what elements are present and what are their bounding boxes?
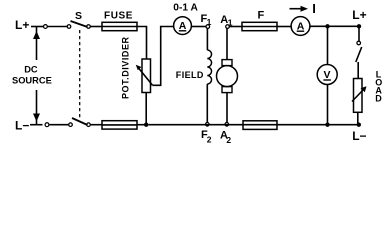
0-1 A label xyxy=(173,2,198,13)
wire load rheostat to L- corner xyxy=(357,112,359,124)
wire wiper tap to ammeter xyxy=(153,27,174,86)
svg-text:2: 2 xyxy=(207,135,212,145)
wire switch to top fuse xyxy=(90,26,102,28)
voltmeter V xyxy=(317,65,337,85)
junction L+ corner xyxy=(357,24,361,28)
node L+ right label xyxy=(352,8,366,22)
wire L+ circle to switch xyxy=(48,26,68,28)
svg-text:D: D xyxy=(375,94,382,104)
wire field coil to F2 xyxy=(206,84,208,122)
junction pot divider / bottom rail xyxy=(144,123,148,127)
F fuse label xyxy=(258,10,265,22)
wire switch to bottom fuse xyxy=(90,124,102,126)
current arrow I xyxy=(290,1,316,16)
node A2 label xyxy=(220,129,231,145)
wire A1 to armature xyxy=(226,29,228,60)
switch S top pole xyxy=(67,21,90,28)
node L+ left label xyxy=(15,18,29,32)
wire F1 to field coil xyxy=(206,29,208,51)
wire L+ corner down to load switch xyxy=(358,26,360,41)
svg-text:L+: L+ xyxy=(352,8,366,22)
svg-text:DC: DC xyxy=(24,65,38,75)
resistor pot divider body xyxy=(142,59,151,93)
ammeter 0-1A xyxy=(174,17,192,35)
wire ammeter to F1 xyxy=(191,26,206,28)
svg-text:L−: L− xyxy=(15,119,29,133)
svg-text:0-1 A: 0-1 A xyxy=(173,2,198,13)
wire L- circle to switch xyxy=(50,124,69,126)
wire ammeter I to L+ corner xyxy=(310,25,359,27)
wire pot divider bottom xyxy=(145,93,147,125)
fuse bottom (rect with line through) xyxy=(102,121,137,129)
pot divider wiper arrow xyxy=(136,65,153,86)
LOAD label xyxy=(375,70,382,104)
wire A1 to fuse F xyxy=(229,26,242,28)
switch S bottom pole xyxy=(69,118,91,126)
motor armature (brushes and body) xyxy=(217,60,238,93)
wire voltmeter top branch xyxy=(327,26,329,64)
POT.DIVIDER label (rotated) xyxy=(121,36,131,99)
node F1 terminal circle xyxy=(206,25,210,29)
wire fuse F to ammeter I xyxy=(277,26,291,28)
wire L+ top bar xyxy=(31,26,43,28)
svg-text:POT.DIVIDER: POT.DIVIDER xyxy=(121,36,131,99)
resistor load rheostat body xyxy=(354,79,363,113)
junction voltmeter top xyxy=(325,24,329,28)
svg-text:FUSE: FUSE xyxy=(104,11,133,22)
wire bottom rail xyxy=(148,124,358,126)
switch S label xyxy=(75,10,82,22)
junction L- corner xyxy=(357,123,361,127)
node F2 terminal circle xyxy=(206,123,210,127)
svg-text:FIELD: FIELD xyxy=(176,70,204,80)
node A2 terminal circle xyxy=(225,123,229,127)
battery DC source line with current arrows xyxy=(33,27,40,125)
node F1 label xyxy=(201,13,212,27)
svg-text:L+: L+ xyxy=(15,18,29,32)
wire fuse to pot divider top xyxy=(137,27,147,60)
node L- left label xyxy=(15,119,29,133)
fuse top (rect with line through) xyxy=(102,22,137,30)
fuse F (rect with line through) xyxy=(242,22,277,30)
svg-text:2: 2 xyxy=(226,135,231,145)
FUSE label xyxy=(104,11,133,22)
wire voltmeter bottom branch xyxy=(327,85,329,125)
svg-text:S: S xyxy=(75,10,82,22)
fuse bottom right (rect with line through) xyxy=(243,121,277,130)
switch S mechanical dashed link xyxy=(79,30,81,118)
node F2 label xyxy=(201,129,212,145)
wire switch to load rheostat xyxy=(357,62,359,79)
svg-text:I: I xyxy=(312,1,316,16)
svg-text:L−: L− xyxy=(352,129,366,143)
node DC SOURCE label xyxy=(12,65,52,86)
node L- terminal circle xyxy=(45,123,49,127)
inductor field winding xyxy=(207,50,211,84)
wire bottom fuse to junction xyxy=(137,124,146,126)
load rheostat arrow xyxy=(352,86,367,101)
svg-text:F: F xyxy=(258,10,265,22)
wire L- bottom bar xyxy=(30,124,43,126)
junction voltmeter bottom xyxy=(325,123,329,127)
node A1 terminal circle xyxy=(226,25,230,29)
node L+ terminal circle xyxy=(44,25,48,29)
wire armature to A2 xyxy=(226,93,228,123)
svg-text:SOURCE: SOURCE xyxy=(12,75,52,85)
switch load branch xyxy=(356,41,362,62)
FIELD label xyxy=(176,70,204,80)
node A1 label xyxy=(220,14,233,28)
ammeter I xyxy=(291,17,310,36)
node L- right label xyxy=(352,129,366,143)
